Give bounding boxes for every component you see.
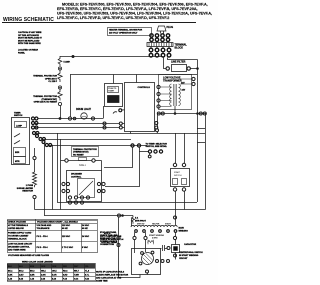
transformer left terminals — [157, 85, 160, 108]
svg-text:CONTROL: CONTROL — [71, 176, 82, 178]
terminal block pins row 4 — [149, 53, 171, 57]
svg-text:SWITCH: SWITCH — [14, 115, 23, 117]
svg-text:IF NO VOLTAGE,: IF NO VOLTAGE, — [100, 231, 117, 234]
start switch box terminals top — [175, 133, 177, 163]
svg-text:EFS-7EVF.B, EFS-7EVF.C, EFS-7E: EFS-7EVF.B, EFS-7EVF.C, EFS-7EVF.D, LFS-… — [57, 7, 198, 11]
svg-text:SURGE LIMITER: SURGE LIMITER — [17, 188, 34, 190]
svg-text:BLOCK: BLOCK — [175, 47, 184, 50]
wire drop to line filter — [164, 57, 167, 69]
selector stub terminals — [139, 151, 148, 153]
svg-text:THERMAL PROTECTOR: THERMAL PROTECTOR — [33, 75, 57, 78]
svg-text:B-18: B-18 — [19, 278, 23, 280]
centrifugal switch label — [179, 251, 203, 260]
motor box — [132, 249, 161, 275]
svg-text:START: START — [108, 89, 115, 92]
svg-text:VOLTAGES MEASURED AT LINE PLAC: VOLTAGES MEASURED AT LINE PLACES — [8, 254, 50, 257]
left drop verticals — [57, 133, 59, 202]
terminal strip bar — [147, 43, 173, 47]
svg-text:MUST BE REPLACED IT: MUST BE REPLACED IT — [18, 37, 43, 40]
capacitor — [161, 248, 162, 250]
svg-text:WITH THE SAME WIRE: WITH THE SAME WIRE — [18, 42, 41, 45]
svg-text:PLUG: PLUG — [167, 26, 174, 29]
node junction on L1 — [72, 55, 74, 57]
timer inner box 2 — [14, 148, 26, 157]
svg-text:CAPACITOR: CAPACITOR — [184, 243, 197, 246]
svg-text:6-RD: 6-RD — [63, 275, 68, 277]
dri-miser control box — [101, 161, 103, 171]
capacitor note — [96, 270, 129, 282]
svg-text:CAUTION: IF ANY WIRE: CAUTION: IF ANY WIRE — [18, 31, 42, 34]
svg-text:24 VAC: 24 VAC — [82, 235, 90, 238]
door switch — [113, 112, 117, 114]
thermostat — [72, 147, 99, 157]
svg-text:NO RESET: NO RESET — [73, 154, 84, 156]
node terminal — [58, 86, 61, 89]
svg-text:RD-6: RD-6 — [63, 271, 67, 273]
wire L1 top horizontal — [60, 56, 163, 58]
winding labels above — [137, 223, 172, 226]
svg-text:PANEL: PANEL — [18, 51, 26, 54]
svg-text:TIMER: TIMER — [14, 112, 21, 114]
motor bottom terminal — [146, 270, 149, 273]
svg-text:VOLTAGE CHECK CHART - ALL MODE: VOLTAGE CHECK CHART - ALL MODELS — [37, 221, 78, 224]
svg-text:G-16: G-16 — [74, 278, 78, 280]
svg-text:SWITCH: SWITCH — [174, 175, 182, 177]
transformer secondary coil — [179, 84, 181, 106]
svg-text:CHECK VOLTAGE: CHECK VOLTAGE — [8, 221, 26, 224]
winding drop wires — [134, 232, 136, 236]
svg-text:BU-2: BU-2 — [19, 271, 23, 273]
second row terminals — [133, 236, 136, 239]
svg-text:SAME TIME: SAME TIME — [96, 279, 108, 282]
transformer bottom wire — [174, 106, 176, 113]
svg-text:START: START — [165, 223, 172, 226]
console box left edge — [70, 75, 72, 118]
bottom rail y209 — [35, 209, 206, 211]
svg-text:4 MFD: 4 MFD — [152, 237, 158, 240]
svg-text:PH 1 - PH 4: PH 1 - PH 4 — [37, 235, 49, 238]
svg-text:5-OR: 5-OR — [52, 275, 57, 277]
thermal protector 2 — [58, 89, 62, 100]
svg-text:D-18: D-18 — [41, 278, 45, 280]
winding terminals — [135, 230, 177, 233]
svg-text:24 VAC: 24 VAC — [82, 224, 90, 227]
svg-text:2-BU: 2-BU — [19, 275, 24, 277]
svg-text:1 FUSE: 1 FUSE — [26, 185, 34, 187]
svg-text:NOTE: IF CAPACITOR FAILS: NOTE: IF CAPACITOR FAILS — [96, 270, 125, 273]
dri-miser bottom terminals — [68, 196, 89, 204]
svg-text:VOLTAGE AND: VOLTAGE AND — [37, 224, 52, 227]
right rail A — [197, 60, 199, 203]
svg-text:TYPE J: TYPE J — [79, 165, 86, 167]
timer box — [12, 118, 30, 165]
svg-text:AT THE TERMINALS: AT THE TERMINALS — [8, 224, 29, 227]
terminal block pin stubs — [151, 37, 169, 53]
svg-text:BK-1: BK-1 — [8, 271, 12, 273]
svg-text:MTR SW: MTR SW — [137, 224, 145, 226]
transformer drop node — [156, 129, 159, 132]
svg-text:LAMP: LAMP — [16, 124, 23, 127]
rail y123 — [34, 123, 119, 125]
thermostat stubs — [61, 160, 65, 162]
rail y127.5 — [34, 127, 119, 129]
motor — [142, 253, 154, 265]
svg-text:HELPER: HELPER — [152, 224, 160, 226]
motor note text — [100, 233, 124, 244]
svg-text:CONTROLS: CONTROLS — [138, 87, 151, 89]
centrifugal switch contact — [148, 241, 154, 243]
legend table — [7, 264, 95, 269]
transformer right terminals — [192, 77, 195, 85]
svg-text:ORN: ORN — [52, 266, 57, 268]
terminal block pins row 3 — [149, 48, 171, 52]
svg-text:THERMAL PROTECTOR: THERMAL PROTECTOR — [73, 148, 97, 151]
svg-text:LOW VOLTAGE CIRCUIT: LOW VOLTAGE CIRCUIT — [8, 243, 33, 246]
svg-text:A-18: A-18 — [8, 277, 12, 280]
low voltage transformer — [159, 75, 192, 110]
models header text — [57, 2, 212, 20]
svg-text:BR-3: BR-3 — [30, 271, 34, 273]
dri-miser right terminals — [97, 182, 105, 192]
wire down to lamp rail — [60, 106, 62, 119]
bottom rail y202 — [57, 202, 197, 204]
svg-text:(THERMOSTAT): (THERMOSTAT) — [73, 151, 89, 154]
start switch box — [171, 169, 190, 187]
svg-text:CL 225 F: CL 225 F — [48, 81, 57, 83]
svg-text:7-WH: 7-WH — [74, 275, 79, 277]
note box (heater terminal detail) — [108, 28, 152, 36]
svg-text:3-BR: 3-BR — [30, 275, 35, 277]
dryness selector terminals — [131, 144, 134, 147]
node terminal — [58, 102, 61, 105]
svg-text:115 VAC: 115 VAC — [62, 235, 71, 238]
svg-text:RESISTOR: RESISTOR — [22, 191, 33, 193]
caution note text — [18, 31, 43, 54]
svg-text:TERMINAL BLOCK: TERMINAL BLOCK — [8, 238, 27, 241]
svg-text:CIRCUIT: CIRCUIT — [179, 258, 188, 260]
svg-text:CENTRIFUGAL SWITCH: CENTRIFUGAL SWITCH — [179, 251, 203, 254]
controls console box — [125, 83, 155, 132]
node terminal — [58, 67, 61, 70]
motor lead wire — [119, 217, 141, 278]
svg-text:240 VOLT OPERATION ONLY: 240 VOLT OPERATION ONLY — [109, 32, 138, 35]
timer terminal column — [32, 117, 38, 129]
svg-text:CHECK THE LINE: CHECK THE LINE — [100, 235, 118, 237]
svg-text:MODELS: EFS-7EVF.500, EFS-7EVF: MODELS: EFS-7EVF.500, EFS-7EVF.503, EFS-… — [62, 2, 208, 6]
svg-text:C-18: C-18 — [30, 278, 34, 280]
wire y139 — [43, 139, 131, 141]
svg-text:F-18: F-18 — [63, 278, 67, 280]
svg-text:5 VAC: 5 VAC — [82, 246, 88, 249]
svg-text:H-16: H-16 — [85, 278, 89, 280]
svg-text:BLU: BLU — [19, 266, 24, 268]
svg-text:LINE FILTER: LINE FILTER — [171, 61, 186, 64]
console box top line — [70, 74, 197, 76]
controls box right terminals — [155, 122, 158, 125]
svg-text:POWER SOURCE: POWER SOURCE — [100, 241, 118, 243]
svg-text:TRANSFORMER: TRANSFORMER — [163, 80, 182, 83]
svg-text:E-18: E-18 — [52, 278, 56, 280]
svg-text:OF THIS APPLIANCE: OF THIS APPLIANCE — [18, 34, 39, 37]
svg-text:FUSE AND THE: FUSE AND THE — [100, 237, 116, 240]
svg-text:YL-8: YL-8 — [85, 271, 89, 273]
start winding label — [149, 234, 165, 240]
svg-text:WH-7: WH-7 — [74, 271, 79, 273]
push to start switch box — [105, 84, 123, 107]
svg-text:LISTED BELOW: LISTED BELOW — [8, 228, 24, 230]
svg-text:BZR: BZR — [15, 152, 20, 154]
circuit breaker 5A — [58, 56, 62, 66]
bottom rail y215.5 — [44, 215, 133, 217]
svg-text:CONNECTION: CONNECTION — [100, 244, 114, 246]
transformer primary coil — [170, 84, 172, 106]
svg-text:OPEN 225 F, NO RESET: OPEN 225 F, NO RESET — [34, 102, 58, 104]
svg-text:LFS-7EVF.C, LFS-7EVF.D, UFS-7E: LFS-7EVF.C, LFS-7EVF.D, UFS-7EVF.C, UFS-… — [57, 16, 169, 20]
svg-text:5 A: 5 A — [135, 217, 139, 220]
svg-text:AND CAPACITOR AT THE: AND CAPACITOR AT THE — [96, 276, 122, 279]
table side note — [100, 231, 118, 246]
svg-text:DRI-MISER CONTROL: DRI-MISER CONTROL — [8, 247, 30, 249]
svg-text:115 VAC: 115 VAC — [62, 224, 71, 227]
svg-text:4-GN: 4-GN — [41, 274, 46, 277]
transformer core — [174, 84, 177, 106]
svg-text:MUST BE REPLACED: MUST BE REPLACED — [18, 39, 40, 42]
svg-text:SWITCH, SEE DETAIL: SWITCH, SEE DETAIL — [146, 145, 168, 148]
svg-text:THERMAL PROTECTOR: THERMAL PROTECTOR — [33, 95, 57, 98]
plug pins row 2 — [150, 38, 170, 41]
svg-text:24V: 24V — [182, 89, 186, 92]
svg-text:RED: RED — [63, 266, 68, 268]
timer contacts — [14, 134, 20, 145]
svg-text:(THERMOSTAT): (THERMOSTAT) — [41, 98, 57, 101]
lamp box — [15, 122, 27, 128]
svg-text:5 AMP.: 5 AMP. — [64, 61, 71, 64]
svg-text:MTR: MTR — [15, 161, 20, 163]
header rule — [2, 22, 196, 24]
voltage table — [7, 219, 98, 253]
start switch bottom terminals — [173, 188, 176, 191]
svg-text:OR-5: OR-5 — [52, 271, 57, 273]
svg-text:IN START WINDING: IN START WINDING — [179, 254, 199, 257]
svg-text:START: START — [174, 171, 181, 174]
timer label — [14, 112, 23, 117]
right rail B — [205, 113, 207, 210]
svg-text:MTR PROT: MTR PROT — [135, 220, 147, 222]
svg-text:1 TO 2 VAC: 1 TO 2 VAC — [62, 246, 74, 249]
svg-text:1-BK: 1-BK — [8, 275, 13, 277]
svg-text:BRN: BRN — [30, 266, 35, 268]
motor start terminals — [156, 260, 159, 263]
timer diagonal contact chain — [33, 132, 52, 147]
svg-text:WINDING: WINDING — [179, 231, 189, 233]
timer inner box 3 — [14, 157, 26, 164]
svg-text:LOCATED ON REAR: LOCATED ON REAR — [18, 49, 39, 52]
main winding coil — [131, 225, 177, 227]
svg-text:BLK: BLK — [8, 266, 13, 268]
svg-text:DRUM LIGHT: DRUM LIGHT — [76, 108, 92, 111]
svg-text:OPEN 250 F,: OPEN 250 F, — [45, 78, 58, 80]
selector drop wires — [104, 147, 133, 168]
wire y145 — [49, 145, 147, 147]
svg-text:AND TIMER WIRE: AND TIMER WIRE — [8, 249, 26, 252]
dri-miser left terminals — [62, 182, 70, 192]
svg-text:ALWAYS REPLACE THE MOTOR: ALWAYS REPLACE THE MOTOR — [96, 273, 129, 276]
wire y133 — [37, 133, 205, 135]
svg-text:TOLERANCE: TOLERANCE — [37, 227, 51, 230]
terminal block label — [175, 44, 188, 50]
svg-text:PH 3 - PH 4: PH 3 - PH 4 — [37, 246, 49, 249]
thermal protector 1 — [58, 70, 62, 82]
svg-text:TO DRYER CABINET: TO DRYER CABINET — [8, 235, 29, 238]
svg-text:HEATER TERMINAL SHOWN FOR: HEATER TERMINAL SHOWN FOR — [109, 29, 143, 32]
motor circuit breaker — [132, 216, 135, 224]
svg-text:TO TEMP. SELECTOR: TO TEMP. SELECTOR — [146, 143, 168, 145]
svg-text:DRI-MISER: DRI-MISER — [71, 174, 82, 176]
svg-text:MAIN: MAIN — [179, 227, 185, 230]
svg-text:60 HZ: 60 HZ — [62, 228, 68, 230]
svg-text:POWER SUPPLY CORD: POWER SUPPLY CORD — [8, 233, 32, 235]
plug — [157, 26, 166, 31]
svg-text:START WINDING: START WINDING — [149, 234, 165, 237]
plug pins row 1 — [150, 34, 170, 37]
svg-text:60 HZ: 60 HZ — [82, 228, 88, 230]
surge limiter resistor — [34, 148, 36, 156]
svg-text:UFS-7EVF.500, UFS-7EVF.503, UF: UFS-7EVF.500, UFS-7EVF.503, UFS-7EVF.504… — [57, 11, 212, 15]
rail step stubs — [197, 128, 205, 130]
wire terminal block to right rail — [168, 58, 198, 60]
svg-text:GRN: GRN — [41, 266, 46, 268]
controls box bottom stub — [130, 132, 132, 134]
